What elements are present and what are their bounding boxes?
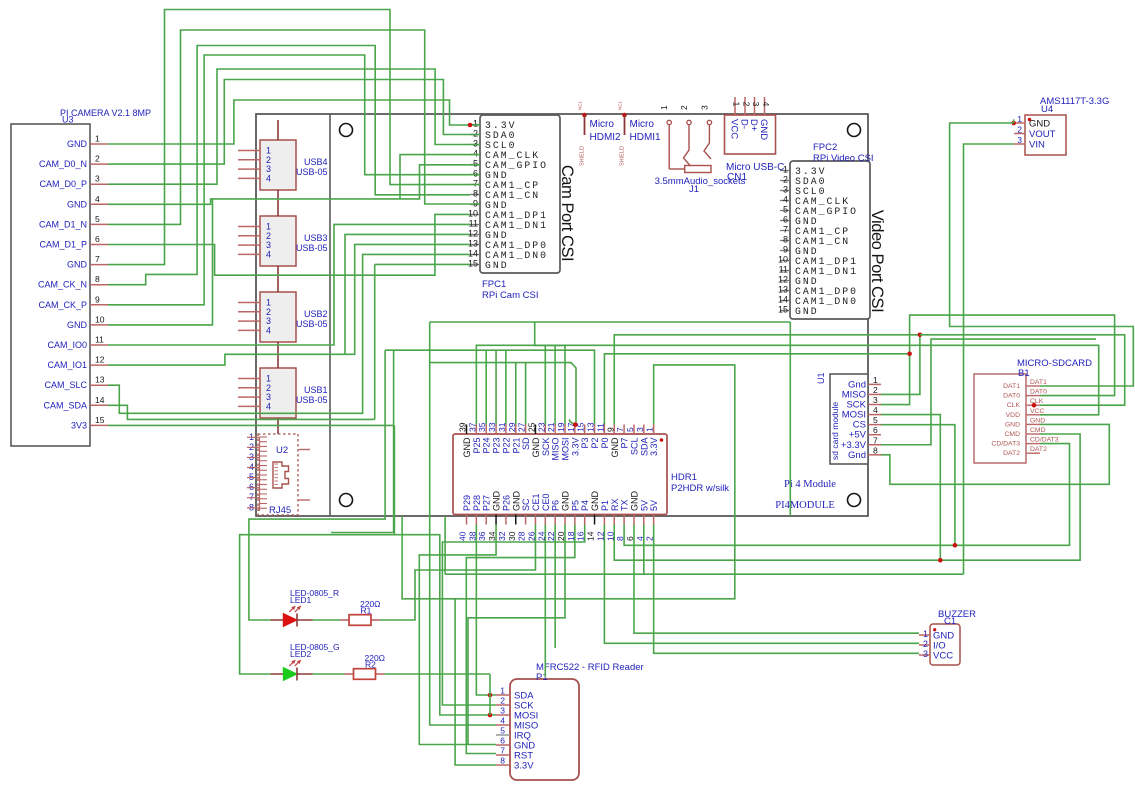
- svg-text:R2: R2: [365, 660, 376, 670]
- svg-text:8: 8: [473, 189, 478, 199]
- svg-text:10: 10: [95, 314, 105, 324]
- svg-text:9: 9: [605, 427, 615, 432]
- svg-text:CAM_IO1: CAM_IO1: [47, 360, 87, 370]
- svg-text:DAT0: DAT0: [1003, 393, 1020, 400]
- svg-text:GND: GND: [67, 320, 88, 330]
- svg-text:CE1: CE1: [531, 493, 541, 511]
- svg-text:LED1: LED1: [290, 595, 312, 605]
- svg-text:D-: D-: [739, 119, 750, 129]
- svg-text:14: 14: [586, 531, 596, 541]
- svg-text:LED2: LED2: [290, 649, 312, 659]
- svg-text:14: 14: [468, 249, 478, 259]
- svg-text:RJ45: RJ45: [269, 505, 291, 516]
- svg-text:11: 11: [95, 335, 104, 345]
- svg-text:3: 3: [699, 105, 709, 110]
- svg-text:P1: P1: [600, 500, 610, 511]
- svg-text:2: 2: [1017, 125, 1022, 135]
- svg-text:GND: GND: [1029, 119, 1050, 130]
- svg-text:P4: P4: [580, 500, 590, 511]
- svg-text:CD/DAT3: CD/DAT3: [1030, 437, 1059, 444]
- svg-text:USB-05: USB-05: [296, 167, 328, 177]
- svg-text:CAM_CK_P: CAM_CK_P: [38, 300, 87, 310]
- svg-text:1: 1: [473, 119, 478, 129]
- svg-text:CAM_D1_P: CAM_D1_P: [39, 240, 87, 250]
- svg-text:3: 3: [1017, 135, 1022, 145]
- svg-text:HDMI1: HDMI1: [630, 132, 662, 143]
- svg-text:GND: GND: [590, 491, 600, 512]
- svg-text:GND: GND: [67, 260, 88, 270]
- svg-text:1: 1: [500, 686, 505, 696]
- svg-text:CAM_CK_N: CAM_CK_N: [38, 280, 87, 290]
- svg-text:5: 5: [783, 205, 788, 215]
- svg-text:CAM_D0_P: CAM_D0_P: [39, 179, 87, 189]
- svg-text:10: 10: [778, 255, 788, 265]
- svg-text:P2HDR w/silk: P2HDR w/silk: [671, 483, 729, 494]
- svg-text:HDMI2: HDMI2: [590, 132, 622, 143]
- svg-text:U1: U1: [816, 372, 826, 384]
- svg-text:GND: GND: [1030, 417, 1045, 424]
- svg-text:11: 11: [469, 219, 478, 229]
- svg-text:R1: R1: [361, 606, 372, 616]
- svg-text:13: 13: [778, 285, 788, 295]
- svg-text:25: 25: [526, 422, 536, 432]
- svg-text:2: 2: [873, 385, 878, 395]
- svg-text:3: 3: [473, 139, 478, 149]
- svg-text:VOUT: VOUT: [1029, 129, 1056, 140]
- svg-text:Micro: Micro: [630, 119, 655, 130]
- svg-text:7: 7: [500, 746, 505, 756]
- svg-text:15: 15: [468, 259, 478, 269]
- svg-text:6: 6: [500, 736, 505, 746]
- svg-text:RPi Cam CSI: RPi Cam CSI: [482, 290, 538, 301]
- svg-text:TX: TX: [620, 499, 630, 511]
- svg-text:P27: P27: [482, 495, 492, 511]
- svg-text:6: 6: [783, 215, 788, 225]
- svg-text:CMD: CMD: [1030, 427, 1046, 434]
- svg-text:2: 2: [95, 154, 100, 164]
- svg-text:DAT1: DAT1: [1003, 383, 1020, 390]
- svg-text:P3: P3: [580, 438, 590, 449]
- svg-text:36: 36: [477, 531, 487, 541]
- svg-text:3: 3: [751, 102, 761, 107]
- svg-text:GND: GND: [531, 437, 541, 458]
- svg-text:9: 9: [95, 294, 100, 304]
- svg-text:P23: P23: [492, 438, 502, 454]
- svg-text:2: 2: [923, 639, 928, 649]
- svg-text:8: 8: [783, 235, 788, 245]
- svg-text:7: 7: [615, 427, 625, 432]
- svg-text:4: 4: [873, 405, 878, 415]
- svg-text:GND: GND: [511, 491, 521, 512]
- svg-text:7: 7: [873, 435, 878, 445]
- svg-text:DAT2: DAT2: [1003, 450, 1020, 457]
- svg-text:14: 14: [95, 395, 105, 405]
- svg-text:4: 4: [266, 401, 271, 411]
- svg-text:CAM_D0_N: CAM_D0_N: [39, 159, 87, 169]
- svg-text:2: 2: [473, 129, 478, 139]
- svg-text:USB2: USB2: [304, 309, 328, 319]
- svg-text:RX: RX: [610, 498, 620, 511]
- svg-text:FPC2: FPC2: [813, 142, 837, 153]
- svg-text:28: 28: [517, 531, 527, 541]
- svg-text:12: 12: [778, 275, 788, 285]
- svg-text:Cam Port CSI: Cam Port CSI: [558, 165, 577, 261]
- svg-text:3: 3: [500, 706, 505, 716]
- svg-text:4: 4: [783, 195, 788, 205]
- svg-text:B1: B1: [1018, 368, 1030, 379]
- svg-text:SDA: SDA: [639, 438, 649, 457]
- svg-text:4: 4: [266, 249, 271, 259]
- svg-text:P25: P25: [472, 438, 482, 454]
- svg-text:P29: P29: [462, 495, 472, 511]
- svg-text:4: 4: [761, 102, 771, 107]
- svg-text:P21: P21: [511, 438, 521, 454]
- svg-text:3: 3: [783, 185, 788, 195]
- svg-text:1: 1: [873, 375, 878, 385]
- svg-text:3.3V: 3.3V: [570, 438, 580, 457]
- svg-text:7: 7: [95, 254, 100, 264]
- svg-text:U2: U2: [276, 445, 288, 456]
- svg-text:VCC: VCC: [1030, 408, 1044, 415]
- svg-text:GND: GND: [610, 437, 620, 458]
- svg-text:USB-05: USB-05: [296, 243, 328, 253]
- svg-text:HDR1: HDR1: [671, 472, 697, 483]
- svg-text:C1: C1: [944, 616, 956, 627]
- svg-text:MFRC522 - RFID Reader: MFRC522 - RFID Reader: [536, 662, 644, 673]
- svg-text:VCC: VCC: [933, 651, 953, 662]
- svg-text:PI4MODULE: PI4MODULE: [775, 500, 835, 511]
- svg-text:10: 10: [468, 209, 478, 219]
- svg-text:USB1: USB1: [304, 385, 328, 395]
- svg-text:GND: GND: [758, 119, 769, 140]
- svg-text:SHIELD: SHIELD: [620, 146, 626, 166]
- svg-text:CLK: CLK: [1007, 402, 1021, 409]
- svg-text:P24: P24: [482, 438, 492, 454]
- svg-text:4: 4: [500, 716, 505, 726]
- svg-text:14: 14: [778, 295, 788, 305]
- svg-text:DAT0: DAT0: [1030, 389, 1047, 396]
- svg-text:8: 8: [873, 445, 878, 455]
- svg-text:6: 6: [473, 169, 478, 179]
- svg-text:GND: GND: [67, 199, 88, 209]
- svg-text:7: 7: [473, 179, 478, 189]
- svg-text:1: 1: [659, 105, 669, 110]
- svg-text:3: 3: [923, 649, 928, 659]
- svg-text:9: 9: [783, 245, 788, 255]
- svg-text:12: 12: [468, 229, 478, 239]
- svg-text:P22: P22: [501, 438, 511, 454]
- svg-text:1: 1: [95, 134, 100, 144]
- svg-text:USB-05: USB-05: [296, 395, 328, 405]
- svg-text:SD: SD: [521, 437, 531, 450]
- svg-text:6: 6: [873, 425, 878, 435]
- svg-text:P28: P28: [472, 495, 482, 511]
- svg-text:1: 1: [1017, 114, 1022, 124]
- svg-text:5: 5: [625, 427, 635, 432]
- svg-text:GND: GND: [67, 139, 88, 149]
- svg-text:2: 2: [679, 105, 689, 110]
- svg-text:1: 1: [732, 102, 742, 107]
- svg-text:CMD: CMD: [1005, 431, 1021, 438]
- svg-text:GND: GND: [795, 306, 819, 317]
- svg-text:P7: P7: [620, 438, 630, 449]
- svg-text:2: 2: [742, 102, 752, 107]
- svg-text:USB4: USB4: [304, 157, 328, 167]
- svg-text:8: 8: [500, 756, 505, 766]
- svg-text:SC: SC: [521, 498, 531, 511]
- svg-text:NC1: NC1: [578, 101, 583, 110]
- svg-text:DAT1: DAT1: [1030, 379, 1047, 386]
- svg-text:VCC: VCC: [729, 119, 740, 139]
- svg-text:12: 12: [95, 355, 105, 365]
- svg-text:6: 6: [95, 234, 100, 244]
- svg-text:2: 2: [783, 175, 788, 185]
- svg-text:3.3V: 3.3V: [649, 438, 659, 457]
- svg-text:3V3: 3V3: [71, 420, 87, 430]
- svg-text:32: 32: [497, 531, 507, 541]
- svg-text:MISO: MISO: [551, 438, 561, 461]
- svg-text:P2: P2: [590, 438, 600, 449]
- svg-text:3: 3: [95, 174, 100, 184]
- svg-text:3.3V: 3.3V: [514, 761, 534, 772]
- svg-text:P5: P5: [570, 500, 580, 511]
- svg-text:P0: P0: [600, 438, 610, 449]
- svg-text:U3: U3: [62, 115, 74, 125]
- svg-text:5: 5: [873, 415, 878, 425]
- svg-text:GND: GND: [485, 260, 509, 271]
- svg-text:CAM_SDA: CAM_SDA: [43, 400, 87, 410]
- svg-text:J1: J1: [689, 184, 699, 195]
- svg-text:CE0: CE0: [541, 493, 551, 511]
- svg-text:RPi Video CSI: RPi Video CSI: [813, 153, 874, 164]
- svg-text:30: 30: [507, 531, 517, 541]
- svg-text:GND: GND: [629, 491, 639, 512]
- svg-text:SCK: SCK: [541, 438, 551, 457]
- svg-text:D+: D+: [748, 119, 759, 132]
- svg-text:39: 39: [458, 422, 468, 432]
- svg-text:5V: 5V: [649, 500, 659, 511]
- svg-text:1: 1: [645, 427, 655, 432]
- svg-text:7: 7: [783, 225, 788, 235]
- svg-text:4: 4: [473, 149, 478, 159]
- svg-text:GND: GND: [1005, 421, 1020, 428]
- svg-text:CAM_D1_N: CAM_D1_N: [39, 219, 87, 229]
- svg-text:2: 2: [500, 696, 505, 706]
- svg-text:P26: P26: [501, 495, 511, 511]
- svg-text:PI CAMERA V2.1 8MP: PI CAMERA V2.1 8MP: [60, 108, 151, 118]
- svg-text:Gnd: Gnd: [848, 450, 866, 461]
- svg-text:13: 13: [468, 239, 478, 249]
- svg-text:MOSI: MOSI: [561, 438, 571, 461]
- svg-text:USB3: USB3: [304, 233, 328, 243]
- svg-text:4: 4: [95, 194, 100, 204]
- svg-text:4: 4: [266, 325, 271, 335]
- svg-text:NC1: NC1: [618, 101, 623, 110]
- svg-text:DAT2: DAT2: [1030, 446, 1047, 453]
- svg-text:15: 15: [778, 305, 788, 315]
- svg-text:U4: U4: [1041, 104, 1053, 115]
- svg-text:CAM_SLC: CAM_SLC: [44, 380, 87, 390]
- svg-text:Video Port CSI: Video Port CSI: [868, 210, 887, 312]
- svg-text:Micro: Micro: [590, 119, 615, 130]
- svg-text:3: 3: [873, 395, 878, 405]
- svg-text:5V: 5V: [639, 500, 649, 511]
- svg-text:11: 11: [779, 265, 788, 275]
- svg-text:GND: GND: [462, 437, 472, 458]
- svg-text:sd card module: sd card module: [830, 402, 840, 460]
- svg-text:GND: GND: [561, 491, 571, 512]
- svg-text:5: 5: [500, 726, 505, 736]
- svg-text:5: 5: [473, 159, 478, 169]
- svg-text:15: 15: [95, 415, 105, 425]
- svg-text:Pi 4 Module: Pi 4 Module: [784, 479, 836, 490]
- svg-text:13: 13: [95, 375, 105, 385]
- svg-text:GND: GND: [492, 491, 502, 512]
- svg-text:FPC1: FPC1: [482, 279, 506, 290]
- svg-text:1: 1: [923, 629, 928, 639]
- svg-text:SHIELD: SHIELD: [580, 146, 586, 166]
- svg-text:P6: P6: [551, 500, 561, 511]
- svg-text:8: 8: [95, 274, 100, 284]
- svg-text:4: 4: [266, 173, 271, 183]
- svg-text:VDD: VDD: [1006, 412, 1020, 419]
- svg-text:5: 5: [95, 214, 100, 224]
- svg-text:3: 3: [635, 427, 645, 432]
- svg-text:VIN: VIN: [1029, 140, 1045, 151]
- svg-text:40: 40: [458, 531, 468, 541]
- svg-text:SCL: SCL: [629, 438, 639, 456]
- svg-text:CAM_IO0: CAM_IO0: [47, 340, 87, 350]
- svg-text:USB-05: USB-05: [296, 319, 328, 329]
- svg-text:CD/DAT3: CD/DAT3: [991, 441, 1020, 448]
- svg-text:CN1: CN1: [727, 172, 747, 183]
